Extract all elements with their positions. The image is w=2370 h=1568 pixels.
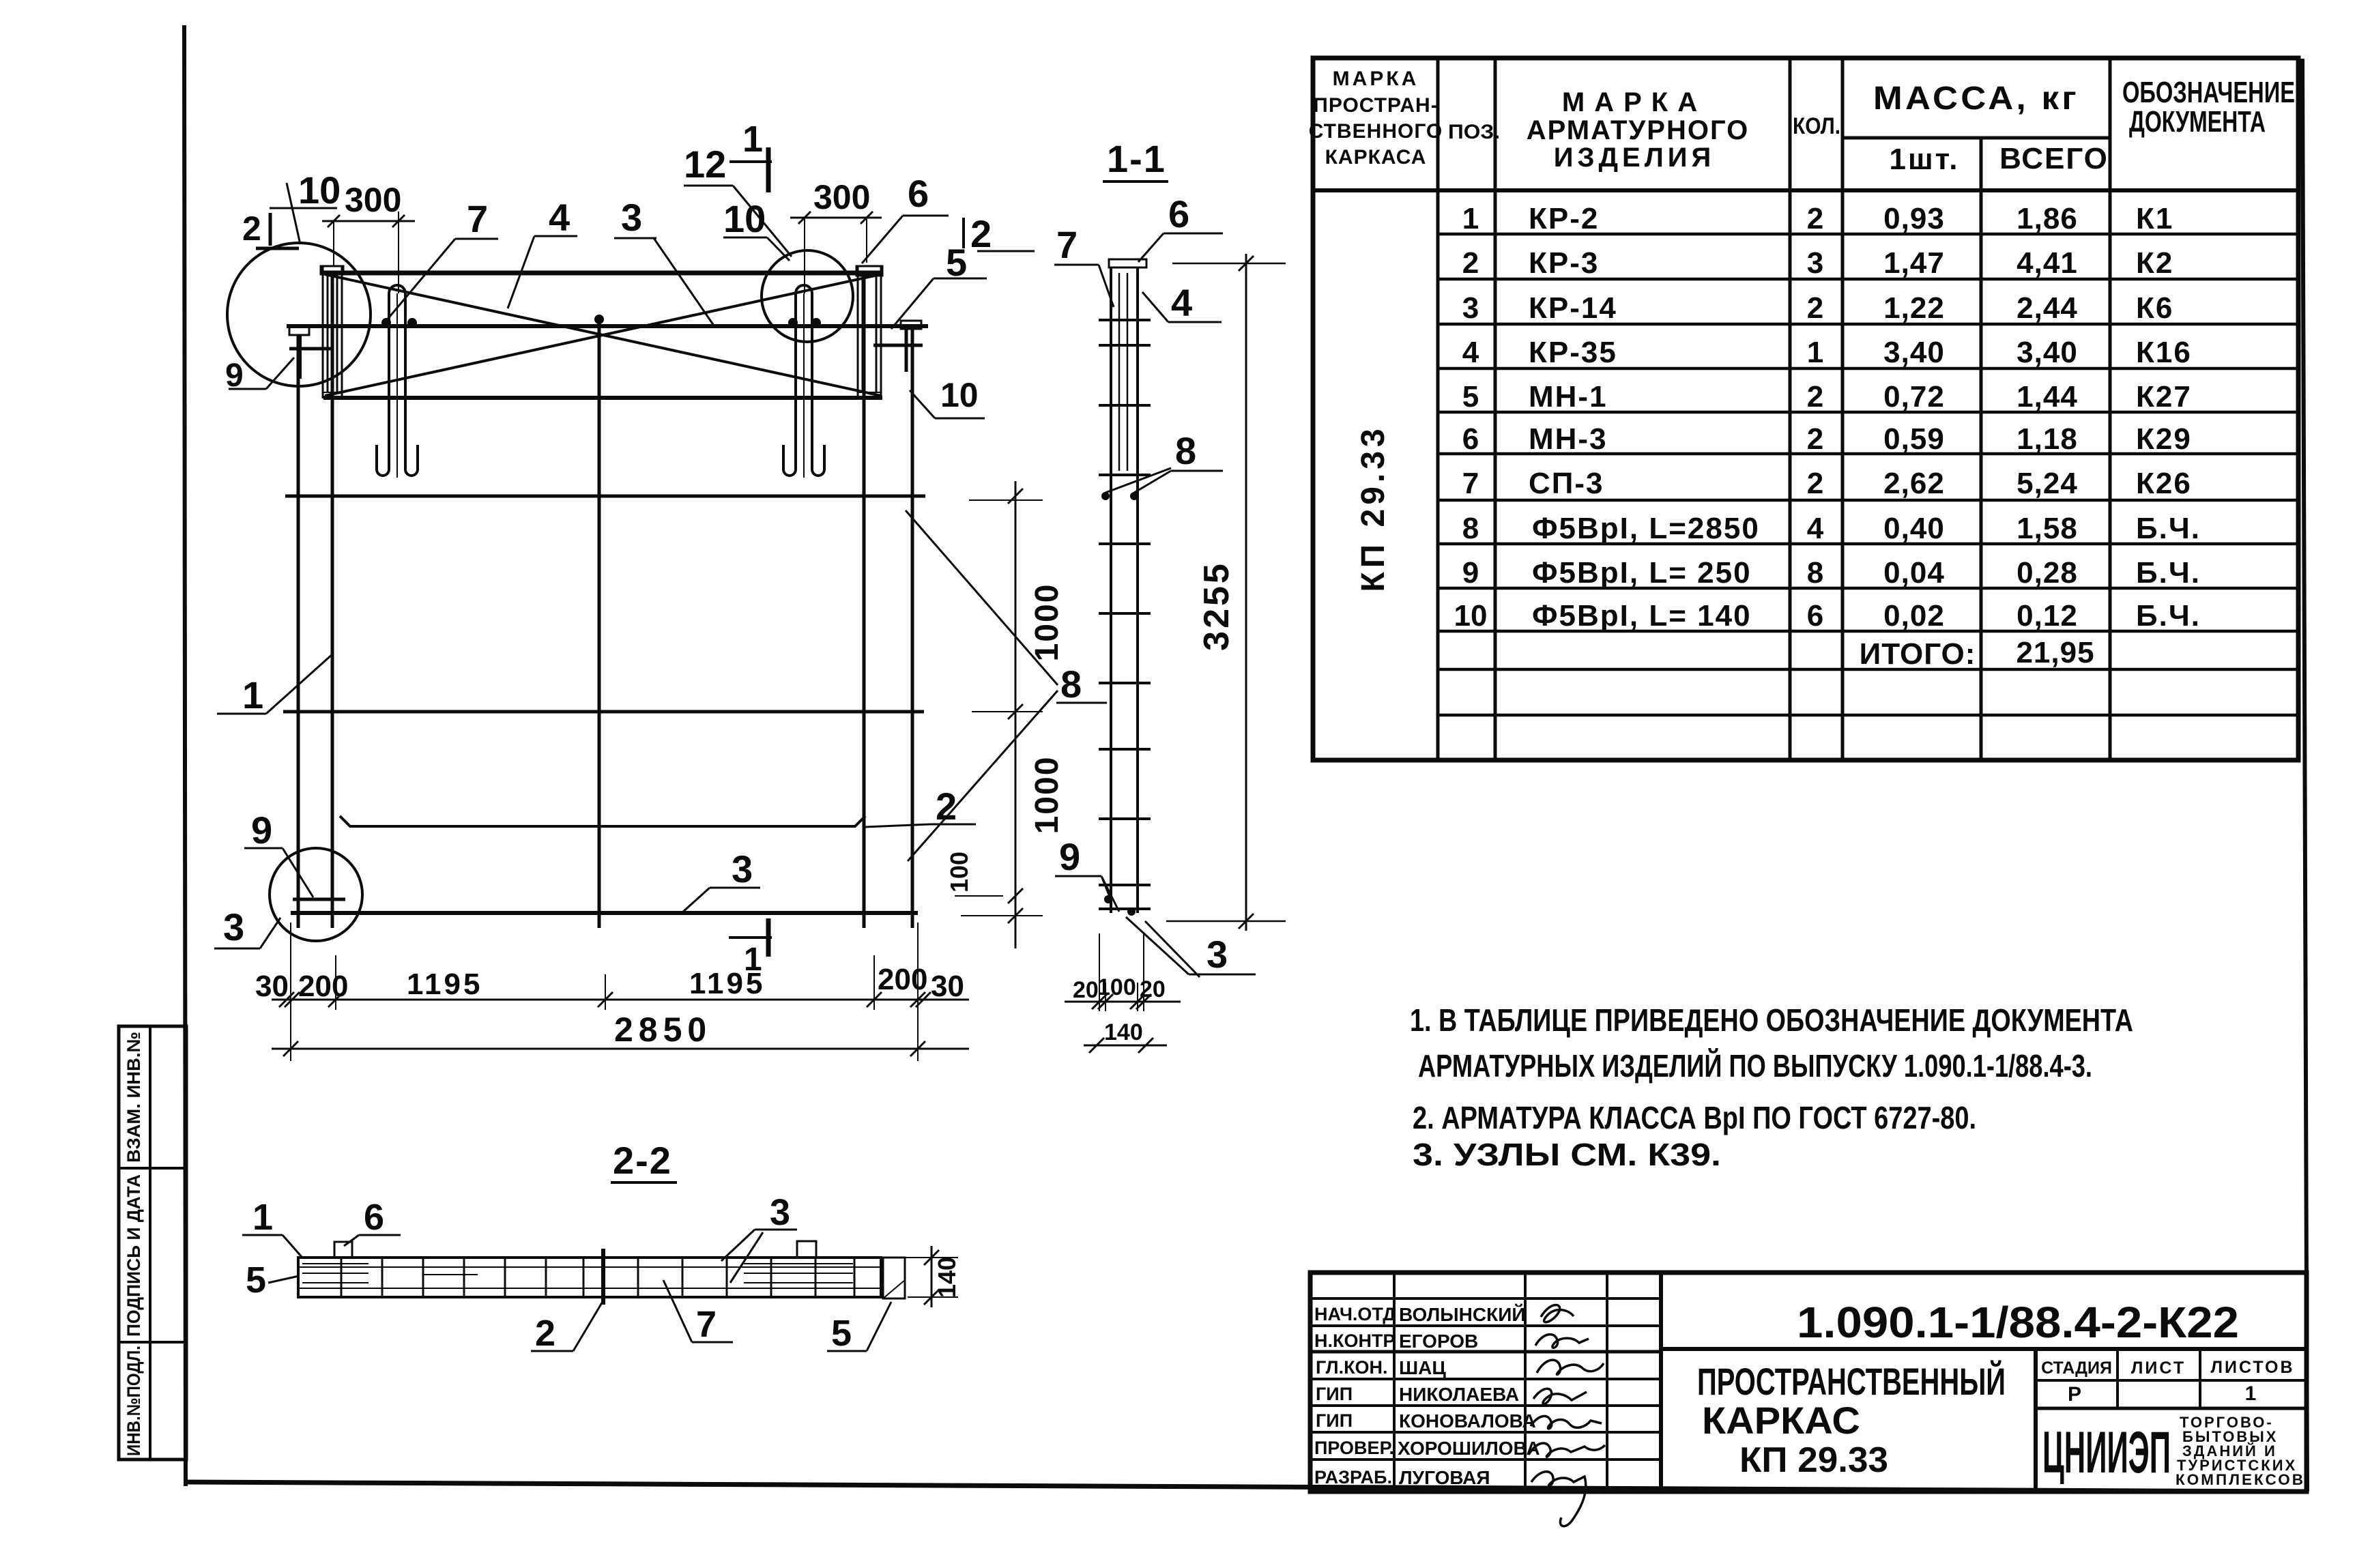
svg-text:5: 5	[246, 1260, 266, 1301]
svg-text:ПРОСТРАНСТВЕННЫЙ: ПРОСТРАНСТВЕННЫЙ	[1697, 1360, 2006, 1403]
svg-text:КР-14: КР-14	[1529, 291, 1617, 325]
svg-text:7: 7	[467, 197, 488, 240]
svg-text:ПРОСТРАН-: ПРОСТРАН-	[1313, 94, 1438, 117]
svg-text:КР-2: КР-2	[1529, 202, 1599, 235]
svg-text:1195: 1195	[407, 968, 482, 1001]
svg-text:Б.Ч.: Б.Ч.	[2136, 556, 2201, 590]
svg-text:ГИП: ГИП	[1316, 1384, 1353, 1404]
svg-text:ВОЛЫНСКИЙ: ВОЛЫНСКИЙ	[1399, 1303, 1525, 1325]
svg-text:ПОДПИСЬ И ДАТА: ПОДПИСЬ И ДАТА	[124, 1174, 144, 1337]
svg-text:7: 7	[1056, 223, 1078, 266]
svg-text:10: 10	[940, 376, 979, 414]
svg-text:2: 2	[1807, 202, 1823, 235]
svg-text:Б.Ч.: Б.Ч.	[2136, 599, 2201, 633]
svg-text:9: 9	[251, 809, 272, 852]
svg-text:3: 3	[1206, 933, 1228, 976]
svg-text:1-1: 1-1	[1107, 137, 1166, 180]
svg-text:АРМАТУРНОГО: АРМАТУРНОГО	[1527, 115, 1750, 145]
svg-text:ЛИСТОВ: ЛИСТОВ	[2210, 1358, 2294, 1377]
svg-text:ШАЦ: ШАЦ	[1399, 1357, 1446, 1378]
svg-text:ИНВ.№ПОДЛ.: ИНВ.№ПОДЛ.	[124, 1346, 144, 1456]
svg-text:ЦНИИЭП: ЦНИИЭП	[2042, 1420, 2171, 1485]
svg-text:2: 2	[936, 785, 957, 828]
svg-text:6: 6	[908, 172, 929, 215]
svg-text:СТАДИЯ: СТАДИЯ	[2041, 1359, 2112, 1378]
svg-text:2,62: 2,62	[1883, 467, 1945, 500]
svg-text:3: 3	[770, 1192, 790, 1233]
svg-text:8: 8	[1807, 556, 1823, 590]
svg-text:КР-3: КР-3	[1529, 246, 1599, 280]
svg-text:2: 2	[970, 212, 992, 255]
svg-text:КОЛ.: КОЛ.	[1793, 113, 1840, 139]
svg-text:3: 3	[621, 196, 642, 239]
svg-text:ДОКУМЕНТА: ДОКУМЕНТА	[2129, 105, 2266, 139]
svg-text:100: 100	[945, 852, 973, 892]
svg-text:3: 3	[1807, 246, 1823, 280]
svg-text:КР-35: КР-35	[1529, 336, 1617, 369]
svg-text:2850: 2850	[614, 1011, 712, 1049]
svg-text:ИЗДЕЛИЯ: ИЗДЕЛИЯ	[1554, 143, 1716, 173]
svg-text:МАРКА: МАРКА	[1333, 68, 1419, 90]
svg-text:1,22: 1,22	[1883, 291, 1945, 325]
svg-text:1,58: 1,58	[2017, 512, 2078, 545]
svg-text:1000: 1000	[1029, 756, 1065, 834]
svg-text:НАЧ.ОТД: НАЧ.ОТД	[1314, 1304, 1396, 1324]
svg-text:6: 6	[364, 1197, 384, 1238]
svg-text:10: 10	[723, 197, 766, 240]
svg-text:2. АРМАТУРА КЛАССА ВрI ПО ГОСТ: 2. АРМАТУРА КЛАССА ВрI ПО ГОСТ 6727-80.	[1413, 1100, 1976, 1135]
svg-text:ГИП: ГИП	[1316, 1410, 1353, 1431]
svg-text:КАРКАСА: КАРКАСА	[1325, 146, 1427, 169]
svg-text:1: 1	[1462, 202, 1479, 235]
svg-text:ГЛ.КОН.: ГЛ.КОН.	[1316, 1357, 1388, 1378]
svg-text:7: 7	[1462, 467, 1479, 500]
svg-text:1: 1	[1807, 336, 1823, 369]
svg-text:0,93: 0,93	[1883, 202, 1945, 235]
svg-text:1000: 1000	[1029, 583, 1065, 662]
svg-text:6: 6	[1462, 422, 1479, 456]
svg-text:ХОРОШИЛОВА: ХОРОШИЛОВА	[1398, 1438, 1540, 1459]
svg-text:200: 200	[298, 970, 348, 1003]
svg-text:1195: 1195	[689, 967, 765, 1000]
svg-text:Р: Р	[2068, 1383, 2081, 1406]
svg-text:К16: К16	[2136, 336, 2192, 369]
svg-text:ИТОГО:: ИТОГО:	[1860, 637, 1976, 671]
svg-text:СП-3: СП-3	[1529, 467, 1604, 500]
svg-text:0,04: 0,04	[1883, 556, 1945, 590]
svg-text:4: 4	[1171, 281, 1192, 324]
svg-text:10: 10	[1454, 599, 1488, 633]
svg-text:К26: К26	[2136, 467, 2192, 500]
svg-text:К27: К27	[2136, 380, 2192, 413]
svg-text:НИКОЛАЕВА: НИКОЛАЕВА	[1399, 1384, 1519, 1405]
svg-text:КОМПЛЕКСОВ: КОМПЛЕКСОВ	[2176, 1471, 2305, 1488]
svg-text:1,44: 1,44	[2017, 380, 2078, 413]
svg-text:4: 4	[1807, 512, 1824, 545]
svg-text:ВСЕГО: ВСЕГО	[1999, 142, 2109, 175]
svg-text:6: 6	[1807, 599, 1823, 633]
svg-text:30: 30	[255, 970, 289, 1003]
svg-text:12: 12	[684, 143, 726, 186]
svg-text:МАРКА: МАРКА	[1562, 87, 1707, 117]
svg-text:2,44: 2,44	[2017, 291, 2078, 325]
svg-text:КП 29.33: КП 29.33	[1355, 424, 1391, 592]
svg-text:1,47: 1,47	[1883, 246, 1945, 280]
svg-text:0,40: 0,40	[1883, 512, 1945, 545]
svg-text:8: 8	[1462, 512, 1479, 545]
svg-text:1. В ТАБЛИЦЕ ПРИВЕДЕНО ОБОЗНАЧ: 1. В ТАБЛИЦЕ ПРИВЕДЕНО ОБОЗНАЧЕНИЕ ДОКУМ…	[1410, 1002, 2133, 1038]
svg-text:140: 140	[1104, 1019, 1143, 1045]
svg-text:1,86: 1,86	[2017, 202, 2078, 235]
svg-text:ОБОЗНАЧЕНИЕ: ОБОЗНАЧЕНИЕ	[2122, 76, 2295, 109]
svg-text:РАЗРАБ.: РАЗРАБ.	[1314, 1467, 1392, 1487]
svg-text:К6: К6	[2136, 291, 2173, 325]
svg-text:5: 5	[831, 1313, 852, 1354]
svg-text:9: 9	[1059, 835, 1080, 878]
svg-text:2: 2	[1462, 246, 1479, 280]
svg-text:Н.КОНТР: Н.КОНТР	[1314, 1331, 1395, 1351]
svg-text:КАРКАС: КАРКАС	[1702, 1399, 1860, 1442]
svg-text:2-2: 2-2	[613, 1139, 672, 1182]
svg-text:200: 200	[878, 963, 927, 996]
svg-text:300: 300	[813, 178, 870, 216]
svg-text:3. УЗЛЫ СМ. К39.: 3. УЗЛЫ СМ. К39.	[1413, 1137, 1721, 1172]
svg-text:140: 140	[933, 1257, 961, 1298]
svg-text:21,95: 21,95	[2016, 636, 2094, 669]
svg-text:1,18: 1,18	[2017, 422, 2078, 456]
svg-text:ВЗАМ. ИНВ.№: ВЗАМ. ИНВ.№	[124, 1032, 144, 1163]
svg-text:КП 29.33: КП 29.33	[1739, 1440, 1888, 1480]
svg-text:К2: К2	[2136, 246, 2173, 280]
svg-text:Ф5ВрI, L= 250: Ф5ВрI, L= 250	[1532, 556, 1752, 590]
svg-text:4,41: 4,41	[2017, 246, 2078, 280]
svg-text:МН-1: МН-1	[1529, 380, 1608, 413]
svg-text:Б.Ч.: Б.Ч.	[2136, 512, 2201, 545]
svg-text:1: 1	[252, 1197, 273, 1238]
svg-text:Ф5ВрI, L=2850: Ф5ВрI, L=2850	[1532, 512, 1760, 545]
svg-text:3,40: 3,40	[2017, 336, 2078, 369]
svg-text:20: 20	[1140, 976, 1166, 1002]
svg-text:4: 4	[549, 196, 570, 239]
svg-text:3: 3	[1462, 291, 1479, 325]
svg-text:300: 300	[345, 181, 401, 219]
svg-text:20: 20	[1073, 977, 1099, 1003]
svg-text:9: 9	[1462, 556, 1479, 590]
svg-text:2: 2	[242, 209, 261, 248]
svg-text:К1: К1	[2136, 202, 2173, 235]
svg-text:3,40: 3,40	[1883, 336, 1945, 369]
svg-text:0,59: 0,59	[1883, 422, 1945, 456]
svg-text:МАССА, кг: МАССА, кг	[1873, 81, 2079, 117]
svg-text:К29: К29	[2136, 422, 2192, 456]
svg-text:ЛУГОВАЯ: ЛУГОВАЯ	[1399, 1467, 1490, 1488]
svg-text:100: 100	[1097, 974, 1136, 1000]
svg-text:3: 3	[223, 905, 244, 948]
svg-text:2: 2	[1807, 291, 1823, 325]
svg-text:СТВЕННОГО: СТВЕННОГО	[1309, 120, 1443, 143]
svg-text:0,72: 0,72	[1883, 380, 1945, 413]
svg-text:5: 5	[1462, 380, 1479, 413]
svg-text:ПОЗ.: ПОЗ.	[1448, 121, 1500, 143]
svg-text:3255: 3255	[1197, 561, 1237, 651]
svg-text:ЛИСТ: ЛИСТ	[2131, 1359, 2186, 1378]
svg-text:7: 7	[696, 1304, 717, 1345]
svg-text:5,24: 5,24	[2017, 467, 2078, 500]
svg-text:ПРОВЕР.: ПРОВЕР.	[1314, 1438, 1394, 1458]
svg-text:30: 30	[931, 970, 964, 1003]
svg-text:2: 2	[535, 1313, 555, 1354]
svg-text:1: 1	[2245, 1382, 2257, 1405]
svg-text:1шт.: 1шт.	[1889, 143, 1959, 176]
svg-text:1: 1	[742, 119, 763, 160]
svg-text:1.090.1-1/88.4-2-К22: 1.090.1-1/88.4-2-К22	[1797, 1298, 2239, 1347]
svg-text:4: 4	[1462, 336, 1479, 369]
svg-text:ЕГОРОВ: ЕГОРОВ	[1399, 1331, 1478, 1352]
svg-text:АРМАТУРНЫХ ИЗДЕЛИЙ ПО ВЫПУСКУ: АРМАТУРНЫХ ИЗДЕЛИЙ ПО ВЫПУСКУ 1.090.1-1/…	[1418, 1048, 2092, 1084]
svg-text:0,28: 0,28	[2017, 556, 2078, 590]
svg-text:8: 8	[1060, 663, 1082, 706]
svg-text:Ф5ВрI, L= 140: Ф5ВрI, L= 140	[1532, 599, 1752, 633]
svg-text:0,02: 0,02	[1883, 599, 1945, 633]
svg-text:1: 1	[242, 673, 263, 716]
svg-text:2: 2	[1807, 422, 1823, 456]
svg-text:0,12: 0,12	[2017, 599, 2078, 633]
svg-text:3: 3	[732, 847, 753, 890]
svg-text:МН-3: МН-3	[1529, 422, 1608, 456]
svg-text:2: 2	[1807, 467, 1823, 500]
svg-text:8: 8	[1175, 429, 1196, 472]
svg-text:2: 2	[1807, 380, 1823, 413]
svg-text:10: 10	[298, 169, 341, 212]
svg-text:КОНОВАЛОВА: КОНОВАЛОВА	[1399, 1410, 1536, 1432]
svg-text:6: 6	[1168, 192, 1189, 235]
